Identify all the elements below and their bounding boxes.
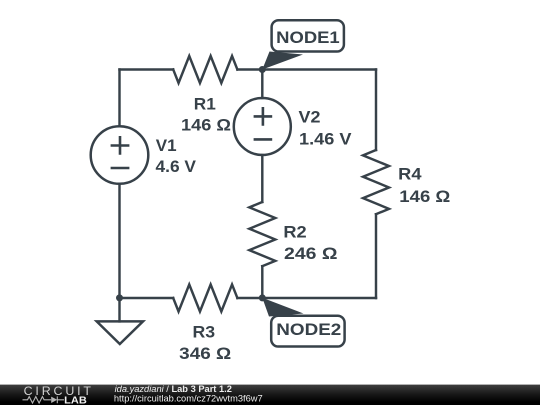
wire R3 to bottom-left junction xyxy=(120,297,174,299)
node NODE2 pointer wedge xyxy=(262,298,303,317)
ground xyxy=(97,321,143,344)
svg-text:NODE1: NODE1 xyxy=(276,28,340,47)
resistor R3 xyxy=(173,285,237,312)
svg-text:http://circuitlab.com/cz72wvtm: http://circuitlab.com/cz72wvtm3f6w7 xyxy=(114,393,263,403)
node NODE1 junction dot xyxy=(259,66,266,73)
svg-text:R1: R1 xyxy=(194,94,216,113)
svg-text:246 Ω: 246 Ω xyxy=(284,244,338,263)
wire junction to ground xyxy=(118,298,120,321)
wire R1 to node1 to top-right corner xyxy=(237,68,376,70)
wire bottom-right to R3 xyxy=(237,297,376,299)
voltage source V2 xyxy=(234,98,291,155)
svg-text:V1: V1 xyxy=(156,136,177,155)
svg-text:1.46 V: 1.46 V xyxy=(299,129,352,148)
node NODE2 junction dot xyxy=(259,294,266,301)
CircuitLab logo resistor-diode glyph xyxy=(23,396,65,403)
node NODE1 pointer wedge xyxy=(262,52,303,70)
svg-text:V2: V2 xyxy=(299,107,321,126)
svg-text:346 Ω: 346 Ω xyxy=(179,344,231,363)
footer bar xyxy=(0,385,540,405)
svg-text:146 Ω: 146 Ω xyxy=(399,187,450,206)
svg-text:4.6 V: 4.6 V xyxy=(156,157,197,176)
ground junction dot xyxy=(116,294,123,301)
svg-text:R3: R3 xyxy=(193,322,216,341)
svg-text:LAB: LAB xyxy=(64,395,87,405)
svg-text:R4: R4 xyxy=(398,165,422,184)
resistor R1 xyxy=(173,56,237,83)
wire node1 down to V2 xyxy=(261,70,263,99)
voltage source V1 xyxy=(91,126,149,184)
node NODE1 box xyxy=(272,20,344,51)
wire V1 to bottom-left junction xyxy=(118,184,120,298)
resistor R2 xyxy=(249,202,275,266)
svg-text:146 Ω: 146 Ω xyxy=(181,116,231,135)
node NODE2 box xyxy=(271,316,344,347)
wire top-left horizontal to R1 xyxy=(120,68,174,70)
svg-text:NODE2: NODE2 xyxy=(276,320,341,339)
wire R2 to node2 xyxy=(261,266,263,298)
svg-text:R2: R2 xyxy=(283,222,306,241)
wire left side top to V1 xyxy=(118,70,120,127)
wire R4 to bottom-right corner xyxy=(375,214,377,298)
resistor R4 xyxy=(363,150,389,214)
wire V2 to R2 xyxy=(261,155,263,202)
wire right side down to R4 xyxy=(375,70,377,151)
